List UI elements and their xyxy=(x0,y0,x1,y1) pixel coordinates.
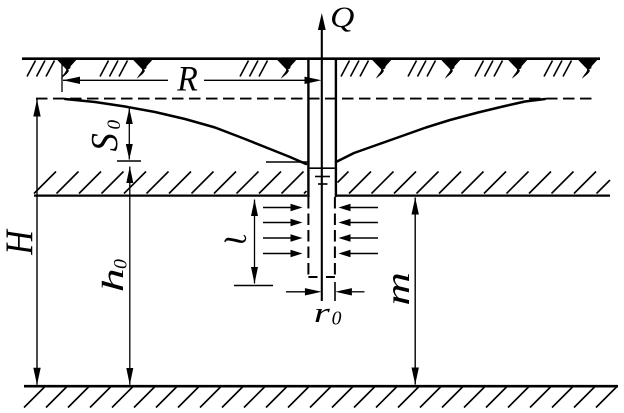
svg-text:Q: Q xyxy=(330,1,354,34)
svg-text:H: H xyxy=(0,228,40,256)
svg-text:R: R xyxy=(176,58,198,98)
svg-text:0: 0 xyxy=(111,259,131,269)
svg-text:m: m xyxy=(379,272,416,306)
svg-text:r: r xyxy=(314,296,330,328)
svg-text:0: 0 xyxy=(332,307,342,329)
svg-text:0: 0 xyxy=(104,119,125,129)
svg-text:S: S xyxy=(84,133,126,152)
svg-text:h: h xyxy=(96,268,130,292)
